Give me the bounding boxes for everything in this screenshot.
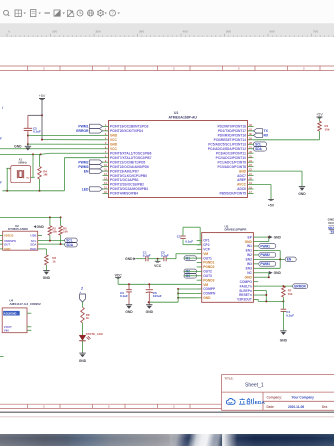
svg-text:DRV8313PWPR: DRV8313PWPR bbox=[225, 228, 248, 232]
svg-text:Date:: Date: bbox=[267, 405, 275, 409]
svg-text:AVCC: AVCC bbox=[237, 183, 247, 187]
svg-text:SDA: SDA bbox=[30, 242, 37, 246]
svg-text:+5V: +5V bbox=[316, 113, 323, 117]
svg-text:GND: GND bbox=[125, 257, 133, 261]
svg-text:LED: LED bbox=[82, 187, 89, 191]
svg-text:PGND1: PGND1 bbox=[203, 261, 214, 265]
svg-text:Your Company: Your Company bbox=[292, 396, 315, 400]
svg-text:STATE_LED: STATE_LED bbox=[86, 332, 104, 336]
svg-text:GND: GND bbox=[280, 339, 288, 343]
svg-text:VCC: VCC bbox=[328, 221, 334, 225]
svg-text:COMPN: COMPN bbox=[203, 292, 216, 296]
svg-text:XO: XO bbox=[26, 177, 29, 179]
svg-text:ERROR: ERROR bbox=[76, 129, 89, 133]
svg-text:PWM3: PWM3 bbox=[260, 262, 270, 266]
svg-text:700: 700 bbox=[313, 30, 318, 34]
svg-text:0.1uF: 0.1uF bbox=[286, 314, 294, 318]
svg-text:OUT2: OUT2 bbox=[203, 270, 212, 274]
svg-text:SCL: SCL bbox=[255, 143, 261, 147]
svg-text:PC5/ADC5/SCL/PCINT13: PC5/ADC5/SCL/PCINT13 bbox=[208, 142, 246, 146]
svg-text:0.1uF: 0.1uF bbox=[161, 254, 169, 258]
svg-text:Sheet_1: Sheet_1 bbox=[245, 382, 264, 388]
svg-text:1k: 1k bbox=[52, 259, 56, 263]
svg-text:PWM2: PWM2 bbox=[78, 160, 88, 164]
svg-text:F: F bbox=[0, 181, 2, 185]
svg-text:VCC: VCC bbox=[115, 273, 123, 277]
svg-text:PCINT22/OC0A/AIN0/PD6: PCINT22/OC0A/AIN0/PD6 bbox=[110, 165, 149, 169]
svg-text:TX: TX bbox=[331, 230, 334, 234]
svg-text:ERROR: ERROR bbox=[294, 284, 306, 288]
svg-text:RESETn: RESETn bbox=[239, 293, 252, 297]
svg-text:V3P3OUT: V3P3OUT bbox=[237, 298, 252, 302]
svg-text:PCINT2/SS/OC1B/PB2: PCINT2/SS/OC1B/PB2 bbox=[110, 183, 144, 187]
svg-text:VDD33: VDD33 bbox=[4, 234, 14, 238]
svg-text:5V: 5V bbox=[80, 287, 84, 291]
svg-text:GND: GND bbox=[245, 275, 253, 279]
svg-text:PB5/SCK/PCINT5: PB5/SCK/PCINT5 bbox=[219, 192, 246, 196]
svg-text:PWM1: PWM1 bbox=[78, 125, 88, 129]
svg-text:0.1uF: 0.1uF bbox=[143, 254, 151, 258]
svg-text:PC3/ADC3/PCINT11: PC3/ADC3/PCINT11 bbox=[216, 151, 246, 155]
svg-text:GND: GND bbox=[146, 310, 154, 314]
svg-text:TX: TX bbox=[264, 129, 269, 133]
svg-text:CP2: CP2 bbox=[203, 243, 210, 247]
svg-text:PCINT23/AIN1/PD7: PCINT23/AIN1/PD7 bbox=[110, 169, 139, 173]
svg-text:ADC7: ADC7 bbox=[237, 174, 246, 178]
svg-text:GND: GND bbox=[274, 271, 282, 275]
svg-text:TITLE:: TITLE: bbox=[225, 376, 234, 380]
svg-text:VCC: VCC bbox=[110, 147, 118, 151]
svg-text:AREF: AREF bbox=[237, 178, 246, 182]
svg-text:GND: GND bbox=[274, 235, 282, 239]
svg-text:EN1: EN1 bbox=[246, 249, 253, 253]
svg-text:10k: 10k bbox=[325, 127, 330, 131]
svg-text:0.1uF: 0.1uF bbox=[120, 294, 128, 298]
svg-text:500: 500 bbox=[226, 30, 231, 34]
svg-text:0.1uF: 0.1uF bbox=[33, 130, 41, 134]
svg-text:1k: 1k bbox=[86, 316, 90, 320]
svg-text:IN1: IN1 bbox=[247, 244, 252, 248]
svg-text:PC1/ADC1/PCINT9: PC1/ADC1/PCINT9 bbox=[217, 160, 246, 164]
svg-text:PCINT19/OC2B/INT1/PD3: PCINT19/OC2B/INT1/PD3 bbox=[110, 125, 149, 129]
svg-text:Company:: Company: bbox=[267, 396, 283, 400]
svg-text:GND: GND bbox=[298, 192, 306, 196]
svg-text:C1: C1 bbox=[177, 235, 181, 239]
svg-text:GND: GND bbox=[14, 144, 22, 148]
svg-text:PCINT1/OC1A/PB1: PCINT1/OC1A/PB1 bbox=[110, 178, 139, 182]
svg-text:PCINT20/XCK/T0/PD4: PCINT20/XCK/T0/PD4 bbox=[110, 129, 143, 133]
svg-text:PGD: PGD bbox=[30, 247, 36, 251]
svg-text:VIN: VIN bbox=[4, 328, 9, 332]
svg-text:VCC: VCC bbox=[154, 264, 162, 268]
svg-text:F: F bbox=[0, 137, 2, 141]
svg-text:PWM3: PWM3 bbox=[78, 165, 88, 169]
svg-text:GND: GND bbox=[4, 247, 10, 251]
svg-text:PD0/RXD/PCINT16: PD0/RXD/PCINT16 bbox=[218, 134, 247, 138]
svg-text:SLEEPn: SLEEPn bbox=[239, 289, 252, 293]
svg-text:GND: GND bbox=[79, 359, 87, 363]
svg-text:VM: VM bbox=[203, 252, 208, 256]
svg-text:PCINT7/XTAL2/TOSC2/PB7: PCINT7/XTAL2/TOSC2/PB7 bbox=[110, 156, 152, 160]
svg-text:EN3: EN3 bbox=[246, 266, 253, 270]
svg-text:PGND2: PGND2 bbox=[203, 265, 214, 269]
svg-text:PC6/RESET/PCINT14: PC6/RESET/PCINT14 bbox=[214, 138, 247, 142]
svg-text:PCINT0/CLKO/ICP1/PB0: PCINT0/CLKO/ICP1/PB0 bbox=[110, 174, 147, 178]
svg-text:GND: GND bbox=[125, 310, 133, 314]
svg-text:VCP: VCP bbox=[203, 248, 211, 252]
svg-text:CP1: CP1 bbox=[203, 239, 210, 243]
svg-text:600: 600 bbox=[270, 30, 275, 34]
svg-text:COMPP: COMPP bbox=[203, 287, 216, 291]
svg-text:IN3: IN3 bbox=[247, 262, 252, 266]
svg-text:KT0605-A50M: KT0605-A50M bbox=[8, 227, 28, 231]
svg-text:OUT3: OUT3 bbox=[203, 274, 212, 278]
svg-text:COMPO: COMPO bbox=[240, 280, 253, 284]
svg-text:SDA: SDA bbox=[66, 243, 73, 247]
svg-text:2020-11-06: 2020-11-06 bbox=[288, 405, 304, 409]
svg-text:PWM2: PWM2 bbox=[260, 253, 270, 257]
svg-text:PD1/TXD/PCINT17: PD1/TXD/PCINT17 bbox=[218, 129, 246, 133]
svg-text:100: 100 bbox=[52, 30, 57, 34]
svg-text:PC2/ADC2/PCINT10: PC2/ADC2/PCINT10 bbox=[216, 156, 247, 160]
svg-text:EN: EN bbox=[84, 169, 89, 173]
svg-text:SDA: SDA bbox=[255, 147, 262, 151]
svg-text:ADC6: ADC6 bbox=[237, 187, 246, 191]
svg-text:USB: USB bbox=[30, 234, 36, 238]
svg-text:GND: GND bbox=[203, 296, 211, 300]
svg-text:EN: EN bbox=[287, 258, 292, 262]
svg-text:+5V: +5V bbox=[39, 94, 46, 98]
svg-text:VM: VM bbox=[203, 283, 208, 287]
svg-text:GND: GND bbox=[37, 225, 45, 229]
svg-text:+5V: +5V bbox=[268, 203, 275, 207]
svg-text:GND: GND bbox=[43, 276, 51, 280]
svg-text:PWM1: PWM1 bbox=[260, 244, 270, 248]
svg-text:OUT1: OUT1 bbox=[203, 256, 212, 260]
svg-text:): ) bbox=[2, 106, 3, 110]
svg-text:IN2: IN2 bbox=[247, 253, 252, 257]
svg-text:GND: GND bbox=[110, 134, 118, 138]
svg-text:400: 400 bbox=[183, 30, 188, 34]
svg-text:PCINT4/MISO/PB4: PCINT4/MISO/PB4 bbox=[110, 192, 138, 196]
svg-text:16MHz: 16MHz bbox=[18, 160, 27, 164]
svg-text:10k: 10k bbox=[52, 230, 57, 234]
svg-text:0.1uF: 0.1uF bbox=[185, 239, 193, 243]
svg-text:PC0/ADC0/PCINT8: PC0/ADC0/PCINT8 bbox=[217, 165, 246, 169]
svg-text:VCC: VCC bbox=[110, 138, 118, 142]
svg-text:100uF: 100uF bbox=[153, 294, 162, 298]
svg-text:OUT: OUT bbox=[4, 242, 10, 246]
svg-text:GND: GND bbox=[239, 169, 247, 173]
svg-text:ATMEGA168P-AU: ATMEGA168P-AU bbox=[169, 116, 198, 120]
svg-text:FAULTn: FAULTn bbox=[240, 284, 252, 288]
svg-text:PC4/ADC4/SDA/PCINT12: PC4/ADC4/SDA/PCINT12 bbox=[208, 147, 246, 151]
svg-text:NC: NC bbox=[247, 271, 252, 275]
svg-text:10k: 10k bbox=[288, 292, 293, 296]
svg-text:EDA: EDA bbox=[255, 400, 266, 406]
svg-text:300: 300 bbox=[139, 30, 144, 34]
svg-text:Dra: Dra bbox=[322, 405, 328, 409]
svg-text:U1: U1 bbox=[174, 111, 178, 115]
svg-text:10k: 10k bbox=[63, 230, 68, 234]
svg-text:200: 200 bbox=[96, 30, 101, 34]
svg-text:PD2/INT0/PCINT18: PD2/INT0/PCINT18 bbox=[217, 125, 246, 129]
svg-text:1M: 1M bbox=[43, 173, 48, 177]
svg-text:PCINT6/XTAL1/TOSC1/PB6: PCINT6/XTAL1/TOSC1/PB6 bbox=[110, 151, 152, 155]
svg-text:PCINT3/OC2A/MOSI/PB3: PCINT3/OC2A/MOSI/PB3 bbox=[110, 187, 148, 191]
svg-text:GND: GND bbox=[245, 240, 253, 244]
svg-text:GND: GND bbox=[110, 142, 118, 146]
svg-text:EN2: EN2 bbox=[246, 258, 253, 262]
svg-text:ADJ/GND: ADJ/GND bbox=[4, 311, 17, 315]
svg-text:AMS1117-3.3_C80952: AMS1117-3.3_C80952 bbox=[9, 302, 41, 306]
svg-text:PCINT21/OC0B/T1/PD5: PCINT21/OC0B/T1/PD5 bbox=[110, 160, 145, 164]
svg-text:RX: RX bbox=[264, 134, 269, 138]
svg-text:PGND3: PGND3 bbox=[203, 278, 214, 282]
